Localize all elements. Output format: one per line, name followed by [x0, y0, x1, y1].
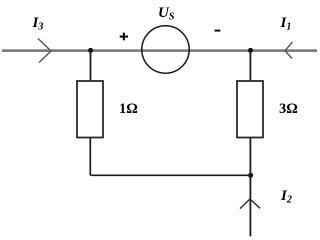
wire bottom horizontal: [90, 174, 250, 176]
wire left branch upper: [90, 51, 92, 82]
wire left branch lower: [89, 138, 91, 176]
polarity plus sign: [120, 33, 128, 41]
wire right branch upper: [249, 50, 251, 81]
resistor 3ohm box: [237, 81, 263, 138]
node junction top-right: [248, 48, 253, 53]
svg-text:US: US: [158, 5, 175, 23]
svg-text:3Ω: 3Ω: [279, 101, 298, 117]
wire top horizontal: [2, 49, 317, 52]
svg-text:I3: I3: [32, 15, 44, 33]
resistor 1ohm box: [77, 81, 103, 138]
current arrow I1 (pointing left on top-right wire): [285, 42, 292, 59]
svg-text:I1: I1: [280, 15, 292, 33]
wire right branch lower (down to bottom edge): [249, 138, 251, 237]
current arrow I2 (pointing up on bottom-right wire): [240, 199, 260, 209]
node junction bottom-right: [248, 173, 253, 178]
svg-text:I2: I2: [280, 188, 292, 206]
polarity minus sign: [215, 30, 221, 32]
svg-text:1Ω: 1Ω: [119, 101, 138, 117]
voltage source US (circle): [142, 26, 189, 73]
node junction top-left: [88, 48, 93, 53]
current arrow I3 (pointing right on top-left wire): [38, 39, 51, 63]
